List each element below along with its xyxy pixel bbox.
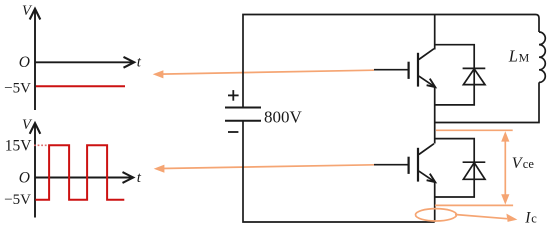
svg-text:L: L (508, 47, 518, 66)
svg-text:M: M (519, 50, 530, 64)
svg-text:ce: ce (523, 157, 535, 171)
svg-text:O: O (19, 54, 30, 71)
svg-text:800V: 800V (264, 107, 303, 126)
svg-text:t: t (137, 55, 142, 71)
svg-text:c: c (531, 212, 537, 226)
svg-text:−5V: −5V (4, 192, 31, 208)
svg-text:I: I (524, 210, 531, 227)
svg-text:−5V: −5V (4, 80, 31, 96)
svg-text:t: t (137, 170, 142, 186)
svg-text:15V: 15V (5, 137, 33, 154)
svg-text:O: O (19, 169, 30, 186)
